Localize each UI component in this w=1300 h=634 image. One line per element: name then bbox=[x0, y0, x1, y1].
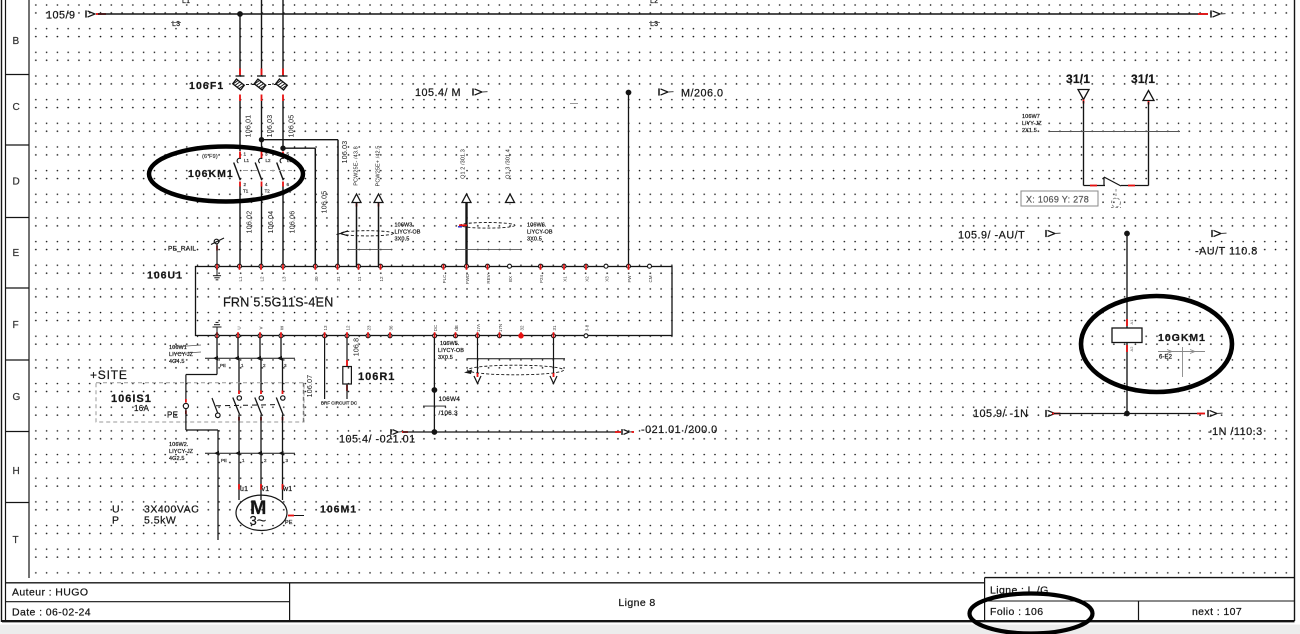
svg-text:PE_RAIL: PE_RAIL bbox=[168, 246, 196, 253]
svg-text:Q1 3 /301.4: Q1 3 /301.4 bbox=[506, 149, 512, 179]
svg-text:X2: X2 bbox=[585, 276, 590, 282]
svg-text:Date : 06-02-24: Date : 06-02-24 bbox=[12, 607, 91, 619]
svg-text:106W5.: 106W5. bbox=[440, 341, 460, 347]
svg-text:106.05: 106.05 bbox=[289, 115, 296, 138]
svg-text:106.06: 106.06 bbox=[290, 211, 297, 234]
svg-text:106.03: 106.03 bbox=[342, 141, 349, 164]
svg-text:P24: P24 bbox=[539, 275, 544, 284]
svg-text:106.05: 106.05 bbox=[322, 191, 329, 214]
svg-text:next : 107: next : 107 bbox=[1192, 606, 1242, 618]
svg-text:17N: 17N bbox=[498, 324, 503, 332]
svg-text:106W2.: 106W2. bbox=[169, 442, 189, 448]
svg-text:FRN 5.5G11S-4EN: FRN 5.5G11S-4EN bbox=[223, 296, 334, 310]
svg-text:U: U bbox=[237, 326, 242, 329]
svg-text:23: 23 bbox=[367, 325, 372, 331]
svg-text:Auteur : HUGO: Auteur : HUGO bbox=[12, 587, 88, 599]
svg-text:3-8: 3-8 bbox=[585, 324, 590, 331]
svg-text:31/1: 31/1 bbox=[1131, 72, 1155, 86]
svg-text:PCW25E- /43.8: PCW25E- /43.8 bbox=[354, 146, 360, 186]
svg-text:105.9/ -1N: 105.9/ -1N bbox=[973, 408, 1028, 420]
svg-text:106W3.: 106W3. bbox=[395, 223, 415, 229]
svg-text:LiYY-JZ: LiYY-JZ bbox=[1022, 121, 1042, 127]
svg-text:A1: A1 bbox=[1129, 319, 1134, 325]
svg-text:5.5kW: 5.5kW bbox=[144, 515, 176, 527]
svg-text:36: 36 bbox=[389, 325, 394, 331]
svg-text:4G4.5: 4G4.5 bbox=[169, 359, 184, 365]
svg-text:FW: FW bbox=[627, 275, 632, 283]
svg-text:+SITE: +SITE bbox=[90, 368, 128, 382]
svg-text:A2: A2 bbox=[1129, 346, 1134, 352]
svg-text:106R1: 106R1 bbox=[358, 371, 395, 383]
svg-text:FWD: FWD bbox=[465, 273, 470, 284]
svg-text:13: 13 bbox=[323, 325, 328, 331]
svg-text:L1: L1 bbox=[182, 0, 190, 5]
svg-text:10GKM1: 10GKM1 bbox=[1158, 332, 1206, 344]
svg-text:/106.3: /106.3 bbox=[439, 410, 458, 417]
svg-text:V: V bbox=[259, 326, 264, 329]
svg-text:-021.01 /200.0: -021.01 /200.0 bbox=[641, 424, 718, 436]
svg-text:w1: w1 bbox=[282, 486, 292, 493]
svg-text:PE: PE bbox=[285, 520, 293, 526]
svg-text:PLC: PLC bbox=[442, 274, 447, 284]
svg-text:H: H bbox=[13, 466, 21, 477]
svg-text:31: 31 bbox=[552, 325, 557, 331]
svg-text:4G2.5: 4G2.5 bbox=[169, 456, 184, 462]
svg-text:106.02: 106.02 bbox=[247, 211, 254, 234]
svg-text:CM: CM bbox=[648, 275, 653, 282]
svg-text:105/9: 105/9 bbox=[46, 10, 76, 22]
svg-text:Folio : 106: Folio : 106 bbox=[990, 606, 1043, 618]
svg-text:LIYCY-OB: LIYCY-OB bbox=[438, 348, 464, 354]
svg-text:L1: L1 bbox=[244, 158, 250, 163]
svg-text:X: 1069 Y: 278: X: 1069 Y: 278 bbox=[1026, 195, 1089, 205]
svg-text:LiYCY-OB: LiYCY-OB bbox=[527, 230, 553, 236]
svg-text:X1: X1 bbox=[563, 276, 568, 282]
svg-text:2X1.5: 2X1.5 bbox=[1022, 128, 1037, 134]
svg-text:E: E bbox=[13, 248, 21, 259]
svg-text:L3: L3 bbox=[282, 276, 287, 282]
svg-text:~: ~ bbox=[257, 511, 267, 530]
svg-text:12: 12 bbox=[346, 325, 351, 331]
svg-text:G: G bbox=[13, 392, 22, 403]
svg-text:6-E2: 6-E2 bbox=[1159, 355, 1173, 361]
svg-text:L2: L2 bbox=[266, 158, 272, 163]
svg-text:3X0.5: 3X0.5 bbox=[438, 355, 453, 361]
svg-text:PCW25E+ /42.5: PCW25E+ /42.5 bbox=[376, 146, 382, 187]
svg-text:105.9/ -AU/T: 105.9/ -AU/T bbox=[958, 230, 1025, 242]
svg-text:31: 31 bbox=[336, 276, 341, 282]
svg-text:11: 11 bbox=[357, 276, 362, 281]
svg-text:16A: 16A bbox=[134, 404, 149, 413]
svg-text:L2: L2 bbox=[260, 276, 265, 282]
svg-text:L3: L3 bbox=[650, 21, 658, 28]
svg-text:L1: L1 bbox=[238, 276, 243, 282]
svg-text:PE: PE bbox=[167, 411, 178, 420]
svg-text:30: 30 bbox=[314, 276, 319, 282]
svg-text:106W7: 106W7 bbox=[1022, 114, 1040, 120]
svg-text:105.4/ M: 105.4/ M bbox=[415, 87, 461, 99]
svg-text:DC: DC bbox=[433, 324, 438, 331]
svg-text:PE: PE bbox=[221, 458, 227, 463]
svg-text:31/1: 31/1 bbox=[1066, 72, 1090, 86]
svg-text:PE: PE bbox=[220, 363, 226, 368]
svg-text:BRF CIRCUIT DC: BRF CIRCUIT DC bbox=[321, 401, 358, 406]
svg-text:12: 12 bbox=[379, 276, 384, 282]
svg-text:L3: L3 bbox=[172, 21, 180, 28]
svg-text:v1: v1 bbox=[262, 486, 270, 493]
svg-text:LIYCY-JZ: LIYCY-JZ bbox=[169, 449, 194, 455]
svg-text:-AU/T 110.8: -AU/T 110.8 bbox=[1195, 246, 1258, 258]
svg-text:Ligne 8: Ligne 8 bbox=[618, 597, 655, 609]
svg-text:F: F bbox=[13, 320, 20, 331]
svg-text:P: P bbox=[112, 515, 120, 527]
svg-text:106.07: 106.07 bbox=[307, 375, 314, 398]
svg-text:106M1: 106M1 bbox=[320, 504, 357, 516]
svg-text:T1: T1 bbox=[243, 189, 249, 194]
svg-text:REV: REV bbox=[486, 274, 491, 283]
svg-text:B: B bbox=[13, 36, 21, 47]
svg-text:M/206.0: M/206.0 bbox=[681, 88, 724, 100]
svg-text:3X0.5: 3X0.5 bbox=[527, 237, 542, 243]
svg-text:D: D bbox=[13, 177, 21, 188]
svg-text:u1: u1 bbox=[240, 486, 248, 493]
svg-text:17A: 17A bbox=[476, 324, 481, 332]
svg-text:T2: T2 bbox=[265, 189, 271, 194]
svg-text:106.8: 106.8 bbox=[354, 338, 361, 357]
svg-text:106.04: 106.04 bbox=[268, 211, 275, 234]
svg-text:-1N /110.3: -1N /110.3 bbox=[1208, 426, 1263, 438]
svg-text:LIYCY-OB: LIYCY-OB bbox=[395, 230, 421, 236]
svg-text:106.01: 106.01 bbox=[246, 115, 253, 138]
svg-text:106.03: 106.03 bbox=[267, 115, 274, 138]
svg-text:106W4: 106W4 bbox=[439, 396, 461, 403]
svg-text:BX: BX bbox=[508, 276, 513, 282]
svg-text:32: 32 bbox=[520, 325, 525, 331]
svg-text:106W6.: 106W6. bbox=[527, 223, 547, 229]
svg-text:3X0.5: 3X0.5 bbox=[395, 237, 410, 243]
svg-text:(6 F9): (6 F9) bbox=[202, 154, 218, 160]
svg-text:X3: X3 bbox=[605, 276, 610, 282]
svg-text:Q1 2 /301.3: Q1 2 /301.3 bbox=[461, 149, 467, 179]
svg-text:dB: dB bbox=[454, 325, 459, 331]
svg-text:106F1: 106F1 bbox=[189, 80, 224, 92]
svg-text:C: C bbox=[13, 102, 21, 113]
svg-text:106KM1: 106KM1 bbox=[188, 168, 234, 180]
svg-text:106U1: 106U1 bbox=[147, 270, 183, 282]
svg-text:T: T bbox=[13, 535, 20, 546]
svg-text:105.4/ -021.01: 105.4/ -021.01 bbox=[339, 434, 416, 446]
svg-text:L2: L2 bbox=[650, 0, 658, 5]
